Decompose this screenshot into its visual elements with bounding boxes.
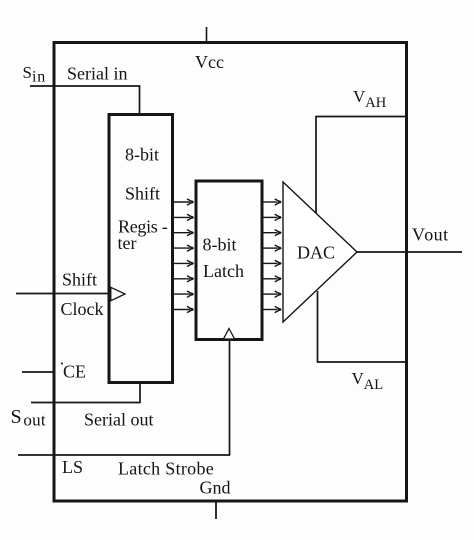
svg-text:Shift: Shift xyxy=(62,270,97,290)
Gnd pin stub xyxy=(215,501,217,519)
svg-text:Serial out: Serial out xyxy=(84,410,154,430)
svg-text:CE: CE xyxy=(63,362,86,382)
svg-text:Latch Strobe: Latch Strobe xyxy=(118,459,214,479)
svg-text:DAC: DAC xyxy=(297,243,335,263)
latch strobe wire xyxy=(18,341,230,455)
Serial out wire xyxy=(31,383,141,403)
svg-text:Serial in: Serial in xyxy=(67,64,128,84)
data bus arrows: latch to DAC xyxy=(264,199,282,313)
VAL wire xyxy=(317,291,405,362)
svg-text:Shift: Shift xyxy=(125,184,160,204)
latch strobe input triangle xyxy=(223,329,234,340)
svg-text:Vcc: Vcc xyxy=(195,52,224,72)
shift register U1 box xyxy=(109,115,173,383)
VAH wire xyxy=(316,116,405,213)
svg-text:Vout: Vout xyxy=(412,225,448,245)
svg-text:Sout: Sout xyxy=(11,406,46,429)
Shift Clock wire xyxy=(16,293,108,295)
svg-text:Clock: Clock xyxy=(61,299,104,319)
svg-text:LS: LS xyxy=(62,457,83,477)
svg-text:ter: ter xyxy=(118,233,137,253)
stray dot above CE xyxy=(61,363,63,365)
data bus arrows: register to latch xyxy=(173,199,194,313)
svg-text:8-bit: 8-bit xyxy=(125,145,159,165)
clock input triangle on register edge xyxy=(111,287,125,300)
svg-text:Gnd: Gnd xyxy=(200,478,231,498)
8-bit latch U2 box xyxy=(196,181,262,340)
svg-text:Latch: Latch xyxy=(203,261,244,281)
outer IC boundary box xyxy=(54,43,407,502)
Vout wire xyxy=(357,251,462,253)
CE wire xyxy=(22,371,54,373)
svg-text:8-bit: 8-bit xyxy=(203,235,237,255)
DAC U3 triangle xyxy=(283,182,357,322)
Vcc pin stub xyxy=(206,27,208,42)
Serial in wire xyxy=(30,85,140,114)
